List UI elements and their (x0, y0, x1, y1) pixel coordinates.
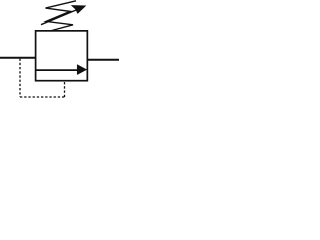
inlet port wire (left) (0, 57, 36, 59)
adjustment arrow shaft (diagonal through spring) (41, 10, 77, 25)
valve body envelope (square) (36, 31, 88, 81)
pilot line: vertical dashed to valve bottom (64, 81, 66, 97)
outlet port wire (right) (87, 59, 119, 61)
flow path arrow shaft inside body (36, 69, 79, 71)
adjustable spring (zigzag) on top (46, 1, 77, 31)
adjustment arrowhead (filled, swept back) (72, 6, 86, 14)
pilot line: horizontal dashed bottom (20, 96, 65, 98)
flow path arrowhead (filled) (77, 65, 86, 75)
pilot line: vertical dashed from inlet (19, 59, 21, 97)
